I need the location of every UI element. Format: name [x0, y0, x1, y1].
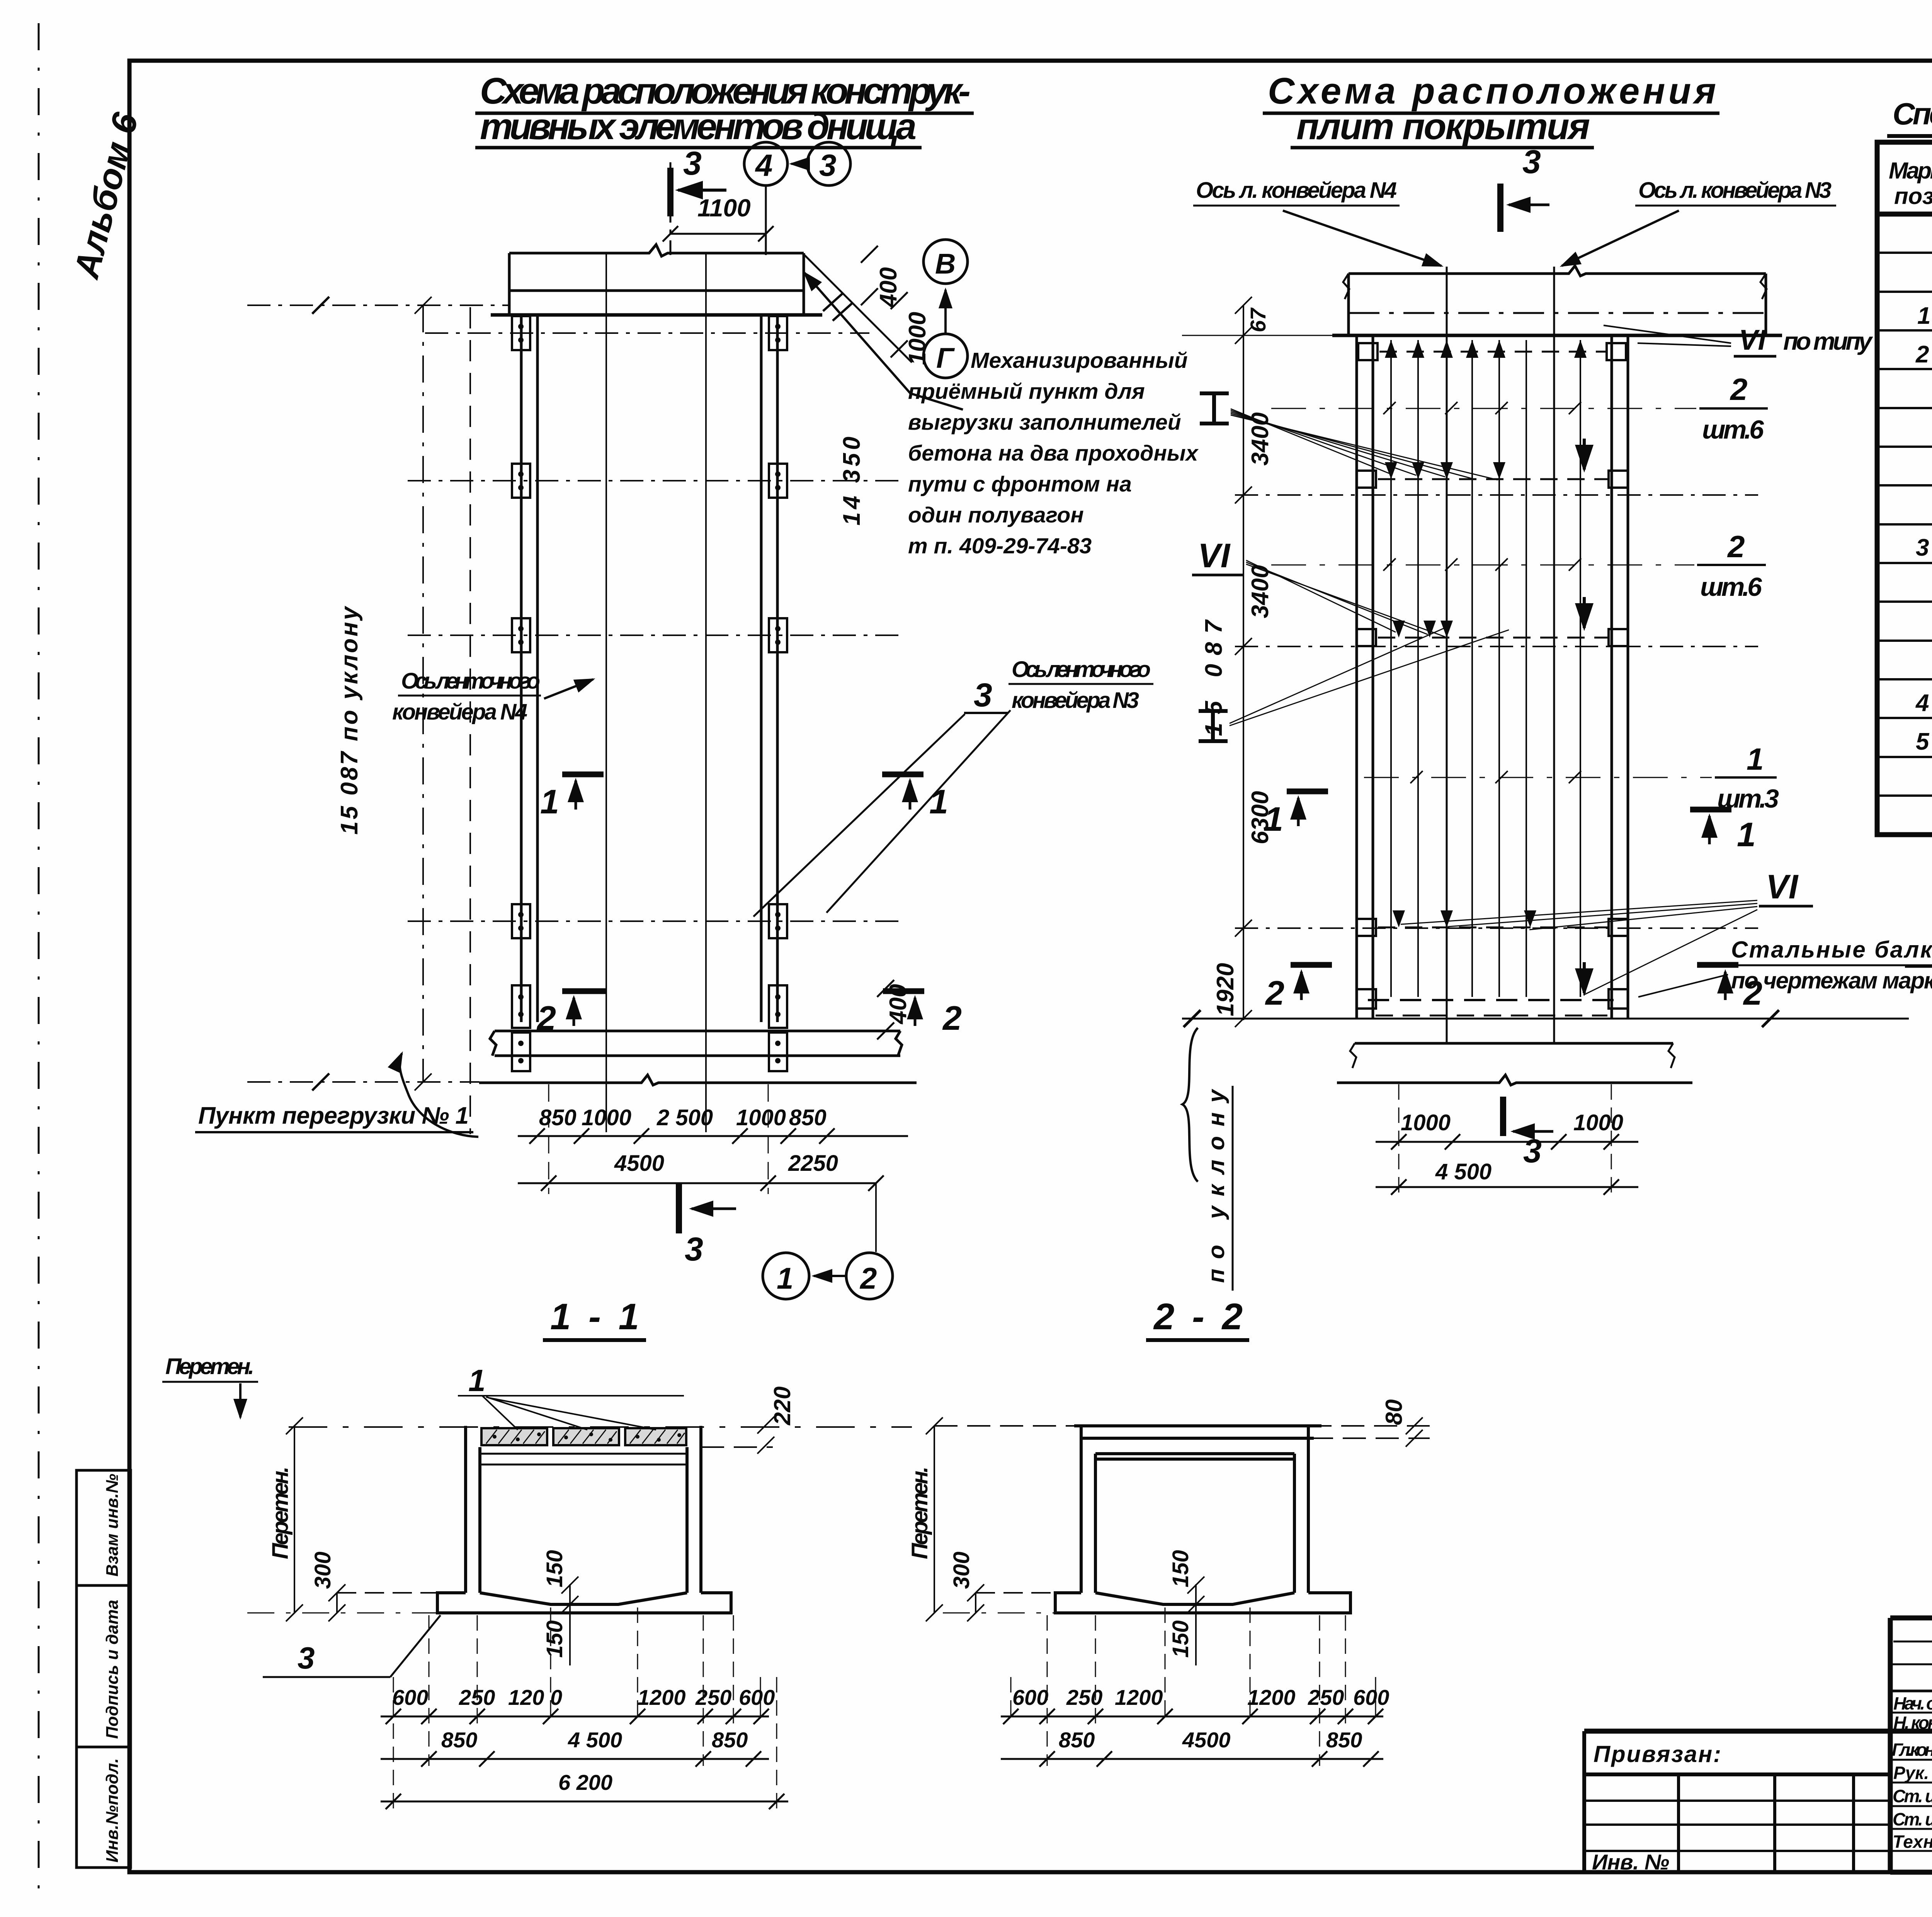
svg-text:Перетен.: Перетен. — [268, 1466, 293, 1559]
svg-text:2: 2 — [1265, 974, 1284, 1012]
svg-text:14 350: 14 350 — [838, 437, 865, 526]
svg-text:2: 2 — [1727, 529, 1745, 564]
svg-text:Ст. инж.: Ст. инж. — [1893, 1786, 1932, 1806]
svg-text:Г: Г — [936, 342, 955, 374]
section mark 2 right (middle) — [1697, 965, 1738, 1000]
svg-text:Схема расположения: Схема расположения — [1268, 70, 1716, 112]
svg-text:VI: VI — [1766, 867, 1799, 906]
svg-text:1000: 1000 — [736, 1105, 786, 1130]
svg-text:2250: 2250 — [788, 1151, 838, 1176]
svg-text:Техник: Техник — [1893, 1832, 1932, 1852]
leader to unloading note — [804, 273, 963, 410]
svg-text:2-2: 2-2 — [1153, 1296, 1243, 1337]
svg-text:Взам инв.№: Взам инв.№ — [103, 1474, 122, 1577]
svg-text:бетона на два проходных: бетона на два проходных — [908, 441, 1199, 466]
axis circle 1 bottom — [763, 1253, 809, 1299]
note text block — [908, 348, 1199, 558]
arrow G to B — [944, 290, 947, 333]
svg-text:80: 80 — [1381, 1399, 1407, 1425]
spec row 5 — [1916, 726, 1932, 755]
svg-text:пути с фронтом на: пути с фронтом на — [908, 472, 1132, 497]
construction dash-dot rows — [247, 305, 900, 1082]
svg-text:выгрузки заполнителей: выгрузки заполнителей — [908, 410, 1181, 435]
spec row 2 — [1915, 341, 1932, 368]
svg-text:5: 5 — [1916, 728, 1930, 755]
svg-text:по уклону: по уклону — [1203, 1089, 1229, 1283]
conveyor axis N4 line — [605, 253, 607, 1132]
left side table — [77, 1470, 131, 1868]
conveyor axes (middle) — [1446, 267, 1448, 1043]
svg-text:1000: 1000 — [1573, 1110, 1623, 1135]
svg-text:конвейера N4: конвейера N4 — [392, 699, 527, 725]
section 1-1 roof plates hatched — [481, 1428, 686, 1445]
svg-text:по чертежам марки КМ: по чертежам марки КМ — [1731, 968, 1932, 993]
svg-text:1: 1 — [468, 1363, 486, 1398]
middle top slab band — [1332, 266, 1782, 335]
svg-text:поз.: поз. — [1894, 183, 1932, 209]
svg-text:1200: 1200 — [638, 1685, 686, 1709]
svg-text:3: 3 — [819, 148, 837, 182]
svg-text:Механизированный: Механизированный — [971, 348, 1188, 373]
svg-text:600: 600 — [739, 1685, 775, 1709]
svg-text:300: 300 — [310, 1551, 335, 1589]
svg-text:3: 3 — [1916, 534, 1929, 561]
svg-text:250: 250 — [695, 1685, 731, 1709]
svg-text:Ось л. конвейера N4: Ось л. конвейера N4 — [1196, 178, 1397, 203]
floor level dashed line 1-1 — [289, 1426, 912, 1428]
svg-text:850: 850 — [539, 1105, 577, 1130]
section mark 3 (middle top) — [1500, 184, 1549, 232]
svg-text:Альбом 6: Альбом 6 — [66, 109, 146, 283]
extension lines 1-1 — [393, 1607, 777, 1808]
svg-text:Пункт перегрузки № 1: Пункт перегрузки № 1 — [198, 1102, 469, 1129]
svg-text:2: 2 — [859, 1261, 877, 1295]
svg-text:150: 150 — [542, 1620, 567, 1658]
tick marks left — [312, 297, 329, 1090]
svg-text:Подпись и дата: Подпись и дата — [103, 1600, 122, 1739]
svg-text:Перетен.: Перетен. — [165, 1354, 254, 1379]
svg-text:шт.6: шт.6 — [1702, 415, 1764, 444]
section mark 1 left — [562, 774, 604, 810]
staff table grid — [1890, 1618, 1932, 1872]
svg-text:1000: 1000 — [904, 312, 931, 365]
roman marker I (2) — [1199, 711, 1228, 741]
svg-text:VI: VI — [1739, 324, 1766, 356]
svg-text:3: 3 — [685, 1231, 703, 1268]
down arrow 2 — [1583, 597, 1586, 628]
svg-text:В: В — [935, 248, 956, 280]
svg-text:3: 3 — [1523, 1133, 1542, 1170]
svg-text:4500: 4500 — [1182, 1728, 1231, 1752]
joint row 4 — [1357, 919, 1628, 936]
svg-text:Привязан:: Привязан: — [1594, 1741, 1721, 1767]
svg-text:1: 1 — [777, 1261, 793, 1295]
svg-text:Схема расположения конструк-: Схема расположения конструк- — [480, 70, 971, 112]
po uklonu brace — [1182, 1028, 1198, 1182]
svg-text:850: 850 — [441, 1728, 477, 1752]
roman marker I (1) — [1200, 393, 1229, 424]
svg-text:850: 850 — [1059, 1728, 1095, 1752]
dims row2 2-2 — [1059, 1728, 1362, 1752]
svg-text:приёмный пункт для: приёмный пункт для — [908, 379, 1145, 404]
conveyor axis N3 line — [705, 253, 707, 1132]
svg-text:3400: 3400 — [1247, 565, 1274, 618]
left dim line verticals — [415, 297, 432, 1090]
arrow circle3 to circle4 — [791, 163, 807, 165]
svg-text:3400: 3400 — [1247, 412, 1274, 466]
down arrow 1 — [1583, 439, 1586, 469]
svg-text:2 500: 2 500 — [656, 1105, 713, 1130]
construction dash-dot rows (middle plan) — [1235, 495, 1758, 928]
dims row1 1-1 — [392, 1685, 775, 1709]
svg-text:1920: 1920 — [1212, 963, 1239, 1016]
svg-text:4: 4 — [755, 148, 773, 182]
spec header texts — [1889, 158, 1932, 209]
svg-text:850: 850 — [1326, 1728, 1362, 1752]
middle wall left — [1357, 335, 1373, 1019]
svg-text:тивных элементов днища: тивных элементов днища — [480, 106, 917, 147]
svg-text:2: 2 — [942, 999, 962, 1037]
svg-text:3: 3 — [683, 145, 702, 182]
spec table grid — [1877, 142, 1932, 835]
svg-text:Рук. гр.: Рук. гр. — [1893, 1763, 1932, 1783]
axis circle G — [923, 334, 968, 378]
svg-text:1-1: 1-1 — [550, 1296, 639, 1337]
svg-text:Перетен.: Перетен. — [907, 1466, 932, 1559]
dims row2 1-1 — [441, 1728, 748, 1752]
paper edge dash line left — [38, 23, 40, 1905]
svg-text:150: 150 — [542, 1550, 567, 1587]
section mark 2 right — [883, 991, 924, 1026]
joint row 2 — [1357, 471, 1628, 488]
spec row 1 — [1917, 303, 1932, 329]
dims row1 2-2 — [1012, 1685, 1389, 1709]
extension lines 2-2 — [1011, 1607, 1376, 1766]
svg-text:один полувагон: один полувагон — [908, 503, 1084, 527]
svg-text:120 0: 120 0 — [508, 1685, 562, 1709]
beam lines under plates 1-1 — [480, 1454, 687, 1465]
svg-text:3: 3 — [1522, 143, 1541, 180]
svg-text:конвейера N3: конвейера N3 — [1012, 688, 1139, 713]
svg-text:600: 600 — [1012, 1685, 1048, 1709]
wall right (double line) — [761, 315, 777, 1022]
svg-text:1: 1 — [540, 782, 559, 821]
svg-text:4 500: 4 500 — [568, 1728, 622, 1752]
svg-text:850: 850 — [789, 1105, 827, 1130]
section 2-2 walls — [1081, 1426, 1308, 1593]
svg-text:1200: 1200 — [1115, 1685, 1163, 1709]
svg-text:Инв.№подл.: Инв.№подл. — [103, 1758, 122, 1863]
privyazan box — [1584, 1731, 1890, 1872]
axis circle 3 — [807, 142, 850, 185]
plate joint verticals — [1391, 340, 1580, 997]
middle bottom platform — [1182, 1010, 1909, 1085]
arrow circle2 to circle1 — [814, 1275, 845, 1277]
svg-text:Инв. №: Инв. № — [1592, 1850, 1669, 1874]
section 2-2 top slab — [1074, 1426, 1321, 1459]
svg-text:600: 600 — [1353, 1685, 1389, 1709]
svg-text:1000: 1000 — [582, 1105, 631, 1130]
svg-text:Ст. инж.: Ст. инж. — [1893, 1809, 1932, 1829]
svg-text:67: 67 — [1246, 307, 1270, 332]
svg-text:4: 4 — [1915, 690, 1929, 716]
dim row 2 left plan — [614, 1151, 838, 1176]
axis circle B — [923, 240, 968, 284]
svg-text:1100: 1100 — [697, 194, 751, 222]
axis circle 4 — [744, 142, 787, 185]
svg-text:Ось л. конвейера N3: Ось л. конвейера N3 — [1638, 178, 1832, 203]
extension dash vertical left of wall — [469, 307, 471, 1134]
top slab band — [491, 245, 822, 315]
svg-text:2: 2 — [536, 999, 556, 1037]
svg-text:400: 400 — [885, 984, 912, 1025]
section mark 3 bottom — [679, 1183, 736, 1233]
section mark 2 left (middle) — [1291, 965, 1332, 1000]
svg-text:850: 850 — [712, 1728, 748, 1752]
pads on walls — [512, 316, 787, 1071]
footing 2-2 — [1055, 1593, 1350, 1613]
svg-text:150: 150 — [1168, 1620, 1193, 1658]
section mark 1 left (middle) — [1287, 791, 1328, 826]
svg-text:3: 3 — [298, 1641, 315, 1675]
svg-text:плит покрытия: плит покрытия — [1296, 106, 1590, 147]
middle left dim chain — [1182, 297, 1355, 1027]
svg-text:1: 1 — [1747, 742, 1764, 776]
joint row 3 — [1357, 629, 1628, 646]
svg-text:600: 600 — [392, 1685, 428, 1709]
svg-text:т п. 409-29-74-83: т п. 409-29-74-83 — [908, 534, 1092, 558]
svg-text:1: 1 — [1737, 815, 1756, 854]
section mark 3 (top) — [670, 168, 726, 216]
section mark 1 right (middle) — [1690, 810, 1731, 844]
svg-text:1000: 1000 — [1401, 1110, 1451, 1135]
footing 1-1 — [437, 1593, 731, 1613]
middle bottom dims — [1401, 1110, 1623, 1135]
svg-text:VI: VI — [1198, 536, 1231, 575]
dim row 1 left plan — [539, 1105, 827, 1130]
svg-text:Спецификация к схемам распо: Спецификация к схемам расположения конст… — [1893, 97, 1932, 131]
svg-text:250: 250 — [1066, 1685, 1102, 1709]
title block outer — [1584, 1618, 1932, 1872]
svg-text:4 500: 4 500 — [1435, 1159, 1492, 1184]
svg-text:Н. контр.: Н. контр. — [1893, 1713, 1932, 1733]
svg-text:6300: 6300 — [1247, 791, 1274, 844]
svg-text:1: 1 — [1917, 303, 1930, 329]
joint row bottom — [1357, 989, 1628, 1015]
svg-text:Стальные балки: Стальные балки — [1731, 937, 1932, 963]
svg-text:Ось ленточного: Ось ленточного — [1012, 657, 1151, 682]
svg-text:2: 2 — [1730, 372, 1748, 407]
middle wall right — [1612, 335, 1628, 1019]
svg-text:6 200: 6 200 — [558, 1770, 612, 1795]
svg-text:Нач. отд.: Нач. отд. — [1893, 1693, 1932, 1713]
svg-text:шт.6: шт.6 — [1700, 572, 1762, 602]
svg-text:150: 150 — [1168, 1550, 1193, 1587]
bottom platform band — [479, 1031, 917, 1085]
section 1-1 walls — [466, 1426, 701, 1593]
svg-text:15 087 по уклону: 15 087 по уклону — [336, 605, 363, 835]
axis circle 2 bottom — [846, 1253, 893, 1299]
svg-text:220: 220 — [769, 1386, 795, 1425]
joint row top — [1358, 343, 1626, 360]
svg-text:Ось ленточного: Ось ленточного — [401, 668, 540, 694]
svg-text:300: 300 — [949, 1551, 974, 1589]
spec row 4 — [1915, 687, 1932, 716]
section mark 1 right — [882, 774, 923, 810]
section mark 3 bottom (middle) — [1503, 1097, 1553, 1136]
svg-text:Гл.констр.: Гл.констр. — [1892, 1740, 1932, 1760]
svg-text:4500: 4500 — [614, 1151, 664, 1176]
wall left (double line) — [521, 315, 537, 1022]
svg-text:3: 3 — [974, 677, 992, 714]
down arrow 3 — [1583, 962, 1586, 993]
svg-text:250: 250 — [1308, 1685, 1344, 1709]
svg-text:Марка ,: Марка , — [1889, 158, 1932, 184]
section mark 2 left — [562, 991, 607, 1026]
svg-text:2: 2 — [1915, 341, 1929, 368]
spec row 3 — [1916, 534, 1932, 561]
svg-text:по типу: по типу — [1783, 327, 1873, 355]
staff rows — [1892, 1693, 1932, 1852]
svg-text:1200: 1200 — [1247, 1685, 1296, 1709]
